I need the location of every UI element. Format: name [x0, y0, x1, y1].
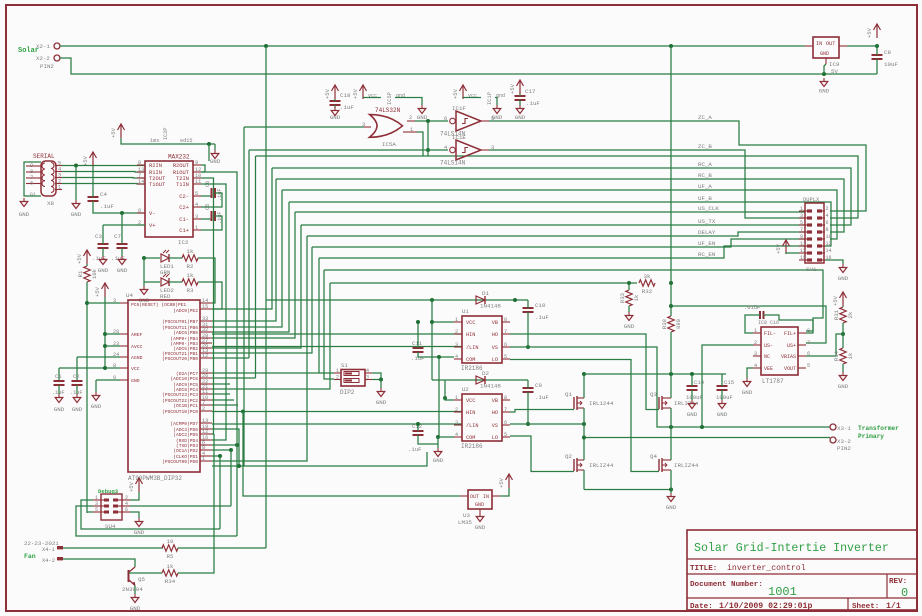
svg-text:1k: 1k: [187, 272, 194, 279]
ground C7: [117, 256, 128, 274]
wire R2OUT loop: [201, 165, 205, 172]
power +5V at C18: [324, 85, 339, 99]
svg-text:+5V: +5V: [82, 155, 89, 166]
svg-text:R34: R34: [165, 578, 176, 585]
svg-text:Q5: Q5: [138, 576, 145, 583]
wire AREF: [105, 333, 120, 335]
capacitor C1: [54, 381, 65, 385]
wire serial pin gnd drop: [75, 166, 77, 200]
junction V- row: [120, 211, 124, 215]
wire VCC row: [59, 367, 120, 369]
label .1uF C1: [52, 390, 64, 396]
svg-text:9: 9: [800, 234, 803, 240]
rev cell: [889, 578, 908, 600]
wire AVCC: [105, 345, 120, 347]
svg-text:(PSCOUT10)PC0: (PSCOUT10)PC0: [162, 409, 198, 415]
svg-text:6: 6: [138, 208, 141, 214]
junction C11 vcc: [416, 320, 420, 324]
junction gnd bus: [237, 464, 241, 468]
svg-text:US_TX: US_TX: [698, 218, 716, 225]
label C11: [412, 340, 423, 347]
svg-text:+5V: +5V: [775, 243, 782, 254]
title row: [690, 563, 806, 573]
svg-text:R14: R14: [833, 350, 840, 361]
wire C9 top: [527, 380, 529, 388]
ground MCU: [91, 392, 102, 410]
svg-text:R2IN: R2IN: [149, 163, 162, 169]
svg-text:GND: GND: [475, 502, 484, 508]
capacitor C6: [205, 181, 223, 201]
svg-text:+5V: +5V: [110, 127, 117, 138]
svg-text:RC_EN: RC_EN: [698, 251, 716, 258]
svg-text:6: 6: [30, 181, 33, 187]
wire C4 to V- row: [93, 201, 145, 213]
svg-text:(PSCOUT00)PD0: (PSCOUT00)PD0: [162, 459, 198, 465]
wire SU4 pin5 row: [87, 511, 93, 513]
svg-text:1: 1: [336, 368, 339, 374]
wire PD6 drop: [212, 429, 239, 466]
svg-text:11: 11: [800, 241, 806, 247]
capacitor C4: [88, 191, 115, 210]
net label DELAY: [698, 229, 716, 236]
svg-text:7: 7: [807, 340, 810, 346]
wire U2 vcc drop: [445, 380, 454, 400]
wire OR input 1 drop: [417, 132, 423, 156]
svg-text:R38: R38: [661, 319, 668, 329]
svg-text:(ADC6)PB5: (ADC6)PB5: [173, 330, 198, 336]
wire C16 right: [764, 315, 814, 333]
svg-text:VCC: VCC: [131, 366, 140, 372]
svg-text:GND: GND: [838, 275, 849, 282]
svg-text:8: 8: [138, 160, 141, 166]
net label RC_A: [698, 161, 712, 168]
svg-text:X4-2: X4-2: [42, 558, 55, 564]
svg-text:X3-2: X3-2: [837, 438, 851, 445]
wire bus v x324: [324, 270, 334, 379]
wire bus v x289: [212, 202, 289, 332]
label .1uF C2: [70, 390, 82, 396]
wire solar+ top rail: [60, 45, 805, 47]
wire C11 bottom to COM: [418, 352, 454, 357]
svg-text:GND: GND: [117, 267, 128, 274]
svg-text:13: 13: [800, 248, 806, 254]
svg-text:IRLIZ44: IRLIZ44: [674, 462, 699, 469]
net label RC_EN: [698, 251, 716, 258]
junction LM35 tap: [241, 410, 245, 414]
wire +5V to C17: [519, 94, 521, 96]
svg-text:LT1787: LT1787: [762, 378, 784, 385]
wire gnd row power: [584, 489, 671, 491]
wire T1IN down to RXD: [201, 184, 226, 440]
wire bus v x295: [212, 212, 295, 338]
svg-text:880: 880: [675, 319, 682, 329]
svg-text:15: 15: [800, 255, 806, 261]
svg-text:IC5A: IC5A: [382, 141, 396, 148]
wire bus v x312: [212, 247, 312, 353]
svg-text:8: 8: [826, 227, 829, 233]
svg-text:R31: R31: [833, 309, 840, 320]
wire SV1 pin16 to gnd: [825, 260, 843, 264]
svg-text:GND: GND: [624, 323, 635, 330]
svg-text:C8: C8: [884, 49, 891, 56]
wire S1 pin1 row: [319, 372, 334, 374]
label 100uF C15: [716, 394, 733, 401]
wire net US_CLK: [295, 211, 805, 213]
svg-text:C1: C1: [55, 373, 62, 380]
power +5V IC5: [352, 85, 367, 99]
svg-text:+5V: +5V: [352, 88, 359, 99]
label C14: [694, 379, 705, 386]
svg-text:(PSCOUT01)PB7: (PSCOUT01)PB7: [162, 319, 198, 325]
svg-text:8: 8: [113, 363, 116, 369]
junction led cathode: [142, 256, 146, 260]
svg-text:5: 5: [807, 363, 810, 369]
wire PD1 row: [212, 455, 222, 457]
ground power stage: [666, 493, 677, 511]
svg-text:C15: C15: [724, 379, 734, 386]
wire PB0 riser: [248, 150, 250, 358]
junction U1 vcc tap: [430, 320, 434, 324]
svg-text:GND: GND: [666, 504, 677, 511]
svg-text:.1uF: .1uF: [535, 314, 549, 321]
net label UF_A: [698, 183, 712, 190]
svg-text:X3-1: X3-1: [837, 425, 851, 432]
svg-text:4: 4: [754, 363, 757, 369]
svg-text:3k: 3k: [644, 273, 651, 280]
svg-text:6: 6: [125, 507, 128, 513]
svg-text:FIL-: FIL-: [764, 331, 776, 337]
svg-text:6: 6: [826, 220, 829, 226]
svg-text:OUT: OUT: [470, 494, 479, 500]
wire R1OUT down rail: [201, 172, 237, 536]
junction boot mid: [513, 298, 517, 302]
wire Q2 source down: [583, 470, 585, 490]
wire net DELAY: [307, 232, 805, 236]
net label US_CLK: [698, 205, 719, 212]
junction reset tap: [85, 301, 89, 305]
svg-text:14: 14: [826, 248, 832, 254]
svg-text:9: 9: [113, 375, 116, 381]
junction C12 lin: [416, 422, 420, 426]
svg-text:6: 6: [444, 116, 447, 122]
label LM35: [458, 519, 472, 526]
wire COM2 gnd drop: [437, 437, 439, 448]
svg-text:IN: IN: [816, 41, 822, 47]
label C3: [95, 233, 102, 240]
capacitor C14: [687, 386, 698, 390]
connector X4-2: [42, 557, 63, 564]
svg-text:+5V: +5V: [324, 88, 331, 99]
capacitor C16: [744, 305, 764, 319]
wire +5V to C4: [92, 166, 94, 197]
wire R3 to PE2: [198, 282, 222, 309]
svg-text:X4-1: X4-1: [42, 547, 55, 553]
svg-text:HIN: HIN: [466, 410, 475, 416]
wire +5V to C18: [334, 99, 336, 101]
resistor R14: [833, 348, 854, 364]
svg-text:VS: VS: [492, 345, 498, 351]
svg-text:2: 2: [409, 115, 412, 121]
net label Primary: [858, 433, 884, 440]
resistor R2: [182, 248, 198, 270]
svg-text:GND: GND: [687, 411, 698, 418]
junction supply Q1: [582, 372, 586, 376]
svg-text:IRL1244: IRL1244: [589, 400, 614, 407]
wire net RC_B: [276, 179, 844, 232]
wire net ZC_A: [489, 121, 866, 211]
label ed15: [180, 138, 192, 144]
svg-text:Q2: Q2: [565, 453, 572, 460]
svg-text:1: 1: [195, 225, 198, 231]
svg-text:RC_A: RC_A: [698, 161, 712, 168]
svg-text:R32: R32: [642, 288, 653, 295]
dip switch S1 DIP2: [334, 362, 372, 396]
svg-text:.1uF: .1uF: [52, 390, 64, 396]
svg-text:6: 6: [504, 342, 507, 348]
ground near MAX232 top: [210, 150, 221, 165]
wire C2 drop: [76, 357, 78, 381]
power +5V at VCC: [94, 283, 109, 297]
svg-text:R3: R3: [187, 287, 194, 294]
junction VCC tap: [103, 366, 107, 370]
wire +5V rail mcu: [104, 297, 106, 368]
wire v244 down from OR input: [243, 127, 245, 466]
svg-text:(ADC10)PC6: (ADC10)PC6: [170, 376, 198, 382]
svg-text:4: 4: [826, 213, 829, 219]
transistor Q2 IRLIZ44: [565, 453, 614, 472]
svg-text:IC1F: IC1F: [452, 105, 466, 112]
wire U1 LO to Q4 gate: [510, 360, 659, 472]
junction sense tap: [700, 425, 704, 429]
svg-text:VOUT: VOUT: [784, 366, 796, 372]
wire C10 bottom to VS: [527, 312, 529, 347]
wire bus v x276: [212, 179, 276, 321]
junction PD3: [235, 443, 239, 447]
wire net US_TX: [301, 224, 805, 226]
wire OR input 3: [244, 126, 364, 128]
capacitor C8: [872, 49, 899, 68]
svg-text:74LS14N: 74LS14N: [440, 160, 466, 167]
svg-text:8: 8: [504, 395, 507, 401]
wire IC1 vcc stub: [463, 97, 481, 99]
wire +5V to R1: [86, 264, 88, 266]
wire vcc boot row U1: [266, 299, 528, 301]
svg-text:GND: GND: [131, 378, 140, 384]
wire PC6 to OR feedback: [212, 377, 256, 379]
wire U2 VS row: [510, 423, 584, 425]
svg-text:GND: GND: [742, 389, 753, 396]
junction PD2: [229, 448, 233, 452]
svg-text:IC2P: IC2P: [163, 128, 169, 140]
wire V+ to C3: [102, 225, 104, 244]
wire R14 gnd: [842, 364, 844, 372]
svg-text:PIN2: PIN2: [40, 63, 54, 70]
svg-text:VCC: VCC: [466, 398, 475, 404]
label IC2P: [163, 128, 169, 140]
header SU4 DEBUG: [93, 488, 130, 530]
svg-text:ed15: ed15: [180, 138, 192, 144]
wire net ZC_B: [489, 150, 805, 218]
wire net R32 row: [330, 282, 637, 284]
svg-text:9: 9: [195, 160, 198, 166]
net label RC_B: [698, 172, 712, 179]
svg-text:3: 3: [455, 342, 458, 348]
gate driver U2 IR2186: [454, 394, 510, 441]
wire OR output to inverters: [415, 120, 448, 122]
junction S1 gnd: [379, 378, 383, 382]
wire R31 to R14: [842, 323, 844, 348]
ground SV1: [838, 264, 849, 282]
net label Solar: [18, 47, 39, 55]
svg-text:(PSCOUT23)PC3: (PSCOUT23)PC3: [162, 392, 198, 398]
svg-text:VBIAS: VBIAS: [781, 354, 796, 360]
junction C14 tap: [690, 372, 694, 376]
svg-text:Sheet:: Sheet:: [852, 603, 879, 611]
svg-text:X2-1: X2-1: [36, 43, 50, 50]
svg-text:C5: C5: [205, 204, 211, 210]
svg-text:(OC1A)PD2: (OC1A)PD2: [173, 448, 198, 454]
svg-text:Q1: Q1: [565, 391, 572, 398]
svg-text:1: 1: [202, 456, 205, 462]
svg-text:74LS32N: 74LS32N: [375, 107, 401, 114]
label IC8 C16: [758, 320, 779, 326]
junction MAX232 vcc: [207, 142, 211, 146]
svg-text:.1uF: .1uF: [92, 255, 106, 262]
resistor R38: [661, 316, 682, 332]
wire Q5 emitter to gnd: [134, 586, 136, 595]
junction C10 VS: [526, 345, 530, 349]
svg-text:(PSCOUT20)PB0: (PSCOUT20)PB0: [162, 356, 198, 362]
junction solar+ at x671: [669, 44, 673, 48]
wire long vertical x266: [265, 46, 267, 548]
svg-text:Q3: Q3: [650, 391, 657, 398]
label U4: [126, 292, 133, 299]
svg-text:LM35: LM35: [458, 519, 472, 526]
wire X8 shell to gnd: [24, 162, 41, 196]
junction U2 vcc tap: [443, 396, 447, 400]
wire bus v x282: [212, 190, 282, 327]
wire C12 bottom to COM2: [418, 435, 438, 444]
svg-text:PC6(RESET) (OC0B)PE1: PC6(RESET) (OC0B)PE1: [131, 302, 186, 308]
title block frame: [687, 530, 917, 610]
svg-text:2: 2: [826, 206, 829, 212]
wire +5V to SV1 pin15: [786, 253, 799, 254]
ground C18: [330, 107, 341, 121]
connector X4-1: [42, 546, 63, 553]
label .1uF C11: [411, 355, 424, 362]
junction +5V node: [875, 44, 879, 48]
svg-text:1/10/2009 02:29:01p: 1/10/2009 02:29:01p: [719, 601, 812, 611]
label .1uF C3: [92, 255, 106, 262]
label C15: [724, 379, 734, 386]
ground IC1: [492, 105, 503, 121]
wire S1 right pins to gnd: [372, 373, 381, 380]
wire SU4 pin3 loop: [76, 506, 237, 536]
svg-text:1N4148: 1N4148: [480, 383, 501, 390]
wire v231 down: [230, 450, 232, 506]
svg-text:UF_A: UF_A: [698, 183, 712, 190]
svg-text:+5V: +5V: [509, 83, 516, 94]
svg-text:US+: US+: [787, 343, 796, 349]
op-amp IC2 MAX232 body: [137, 160, 201, 237]
ground C17: [515, 105, 526, 121]
wire +5V node to C8: [876, 46, 878, 55]
wire PB0 to IC1E input: [212, 357, 249, 359]
wire v671 sense: [670, 283, 672, 316]
svg-text:1k: 1k: [187, 248, 194, 255]
svg-text:2: 2: [455, 407, 458, 413]
svg-text:VB: VB: [492, 320, 498, 326]
LED2 red: [160, 274, 174, 300]
wire IC5 vcc stub: [363, 97, 381, 99]
svg-text:DIP2: DIP2: [340, 389, 355, 396]
power +5V at C17: [509, 80, 524, 94]
svg-text:T1OUT: T1OUT: [149, 182, 166, 188]
wire Q1 source to Q2 drain: [583, 408, 585, 460]
net label ZC_A: [698, 114, 712, 121]
label IC1P: [487, 92, 493, 105]
svg-text:11: 11: [195, 179, 201, 185]
junction R32 right: [669, 281, 673, 285]
wire LIN1 row: [212, 346, 462, 348]
wire C9 bottom to VS2: [527, 392, 529, 424]
capacitor C12: [413, 431, 424, 435]
svg-text:DELAY: DELAY: [698, 229, 716, 236]
label IC2: [178, 239, 189, 246]
connector X2-1: [36, 43, 60, 50]
wire net UF_B: [289, 202, 831, 246]
svg-text:C10: C10: [535, 302, 546, 309]
wire C14 top: [691, 374, 693, 386]
label .1uF C7: [111, 255, 125, 262]
wire C2 gnd: [76, 385, 78, 394]
ground LT1787: [742, 378, 753, 396]
label C17: [525, 88, 536, 95]
svg-text:1: 1: [800, 206, 803, 212]
junction supply x671: [669, 372, 673, 376]
svg-text:DUPLX: DUPLX: [803, 197, 820, 203]
net label UF_EN: [698, 240, 716, 247]
svg-text:.1uF: .1uF: [526, 100, 540, 107]
svg-text:R33: R33: [619, 293, 626, 303]
svg-text:HIN: HIN: [466, 332, 475, 338]
label C2: [73, 373, 80, 380]
svg-text:GND: GND: [134, 529, 145, 536]
junction vcc boot left: [430, 298, 434, 302]
svg-text:5: 5: [504, 432, 507, 438]
svg-text:0: 0: [901, 586, 908, 600]
svg-text:/LIN: /LIN: [466, 345, 478, 351]
wire C11 top: [417, 322, 419, 348]
svg-text:U3: U3: [463, 512, 470, 519]
wire SU4 pin4 row: [130, 505, 231, 507]
wire PC5 stub: [212, 383, 230, 385]
svg-text:2N3904: 2N3904: [122, 586, 143, 593]
wire U2 LO to Q2 gate: [510, 436, 574, 472]
svg-text:4: 4: [366, 368, 369, 374]
wire OR output down: [427, 121, 429, 150]
svg-text:3: 3: [195, 214, 198, 220]
junction AREF tap: [103, 332, 107, 336]
svg-text:2: 2: [202, 406, 205, 412]
wire IC9 out to +5V node: [847, 45, 877, 47]
power +5V above C8: [866, 24, 881, 38]
resistor R5: [162, 538, 178, 560]
wire C18 to gnd: [334, 105, 336, 108]
wire PC1 stub: [212, 404, 238, 406]
svg-text:1/1: 1/1: [886, 601, 901, 611]
svg-text:US_CLK: US_CLK: [698, 205, 719, 212]
